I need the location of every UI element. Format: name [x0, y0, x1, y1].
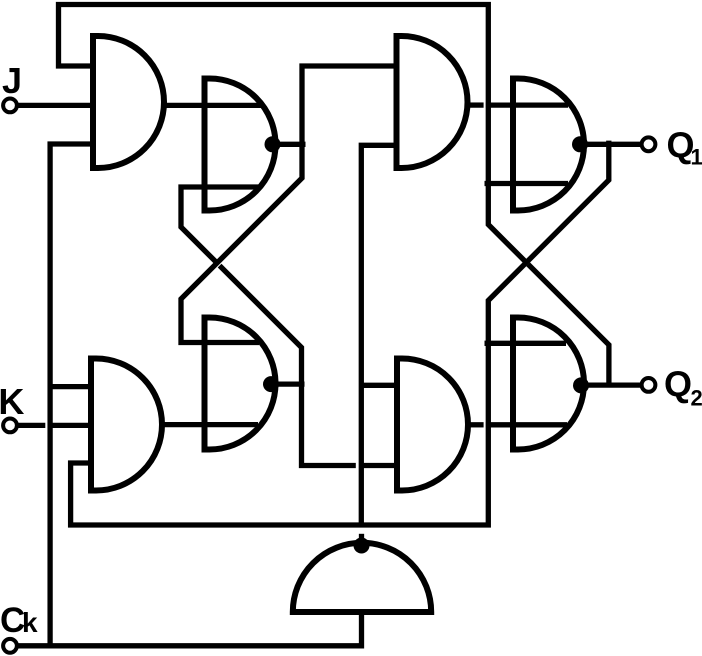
label Q1 [667, 125, 702, 170]
junction dot U8 output [573, 377, 589, 393]
wire K input to U5 (hops over clock line) [16, 423, 91, 428]
output terminal Q1 [642, 137, 656, 151]
AND gate U4 [513, 79, 584, 211]
wire U3 output to U4 (hops over feedback line) [468, 102, 568, 107]
junction dot U2 output [265, 136, 281, 152]
input terminal Ck [3, 639, 17, 653]
AND gate U7 [397, 359, 468, 491]
wire J input to U1 [16, 103, 93, 108]
label Q2 [664, 364, 702, 411]
svg-text:K: K [0, 381, 24, 422]
svg-text:Q: Q [664, 364, 692, 405]
wire Ck input to inverter U9 [16, 612, 362, 646]
wire Q1 feedback to U8 and U5 [71, 141, 609, 525]
junction dot U9 output [354, 538, 370, 554]
svg-text:2: 2 [691, 386, 702, 411]
wire U5 output to U6 [162, 422, 258, 427]
input terminal K [3, 419, 17, 433]
wire U8 output to Q2 terminal [587, 382, 641, 387]
svg-text:J: J [2, 60, 22, 101]
wire clock branch to U1 and U5 [50, 144, 93, 646]
AND gate U5 [91, 359, 162, 491]
AND gate U6 [205, 318, 276, 450]
input terminal J [3, 99, 17, 113]
inverter U9 (clock inverter dome) [293, 543, 431, 612]
wire U1 output to U2 [164, 103, 261, 108]
AND gate U8 [513, 318, 584, 450]
wire U2 output to U3 and cross-couple to U6 [181, 66, 397, 343]
svg-text:k: k [22, 607, 38, 638]
wire U9 output Ck-bar to U3 and U7 (hops over feedback line) [361, 145, 397, 547]
svg-text:1: 1 [691, 145, 702, 170]
wire U6 output to U7 and cross-couple to U2 (hops at crossings) [181, 187, 397, 466]
label Ck [0, 601, 38, 640]
AND gate U3 [397, 36, 468, 168]
output terminal Q2 [642, 378, 656, 392]
junction dot U4 output [572, 136, 588, 152]
wire U4 output to Q1 terminal [586, 142, 642, 147]
wire U7 output to U8 (hops over feedback line) [468, 422, 567, 427]
junction dot U6 output [263, 376, 279, 392]
AND gate U1 [93, 36, 164, 168]
wire Q2 feedback to U4 and U1 (hops at diagonal crossing) [59, 5, 609, 388]
AND gate U2 [205, 79, 276, 211]
